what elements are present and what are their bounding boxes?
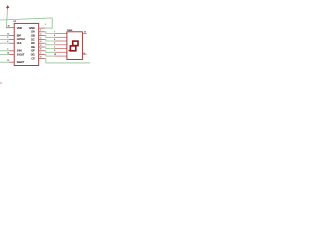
pin EN stub	[9, 35, 14, 37]
pin f stub	[55, 51, 67, 53]
wire B-EXT	[0, 61, 9, 63]
wire e	[45, 47, 55, 49]
wire: horizontal rail y=18.4	[0, 18, 52, 20]
digit 8 top loop	[73, 41, 78, 46]
pin g stub	[55, 55, 67, 57]
wire: rail corner down to GND pin	[45, 18, 53, 28]
pin OE stub	[39, 46, 45, 48]
clipped part fragment at left edge	[0, 83, 2, 84]
IC left pin labels	[17, 26, 25, 64]
wire d	[45, 43, 55, 45]
display pin numbers	[54, 31, 56, 56]
wire EN	[0, 35, 9, 37]
wire: power vertical to VDD pin	[6, 9, 7, 28]
digit 8 figure	[70, 41, 78, 51]
wire B-OUT	[0, 54, 9, 56]
right pins: stubs rows 2-9	[39, 32, 45, 59]
wire co	[45, 58, 90, 63]
pin number 16	[8, 26, 10, 28]
IC right pin labels	[29, 26, 35, 60]
pin GND stub	[39, 27, 45, 29]
wire g	[45, 55, 55, 57]
pin VDD stub	[6, 27, 14, 29]
pin OF stub	[39, 50, 45, 52]
pin COM2 stub	[82, 53, 86, 55]
digit decimal point	[69, 50, 70, 51]
wire f	[45, 51, 55, 53]
pin LATCH stub	[9, 38, 14, 40]
pin COM1 stub	[82, 32, 86, 34]
wire c	[45, 39, 55, 41]
display pin stubs (long pale)	[55, 34, 67, 57]
wire a	[45, 32, 55, 34]
label U1	[14, 21, 18, 23]
left pins: stubs and wires	[9, 36, 14, 63]
7-segment display box	[67, 32, 83, 60]
pin OD stub	[39, 42, 45, 44]
svg-text:7SEG: 7SEG	[67, 30, 73, 32]
pin number 1 (GND)	[45, 24, 46, 26]
pin a stub	[55, 33, 67, 35]
pin CO stub	[39, 57, 45, 59]
pin b stub	[55, 36, 67, 38]
power symbol 5V	[6, 5, 9, 9]
label 7SEG	[67, 30, 73, 32]
pin OB stub	[39, 35, 45, 37]
pin e stub	[55, 48, 67, 50]
wires: IC outputs to display pins (jog down)	[45, 32, 90, 63]
pin OC stub	[39, 38, 45, 40]
pin OG stub	[39, 54, 45, 56]
wire LATCH	[0, 38, 9, 40]
IC U1 box	[14, 23, 39, 65]
wire CLK	[0, 42, 9, 44]
pin B-IN stub	[9, 50, 14, 52]
wire B-IN	[0, 50, 9, 52]
left pin numbers	[7, 33, 9, 62]
pin c stub	[55, 40, 67, 42]
digit 8 bottom loop	[70, 46, 75, 51]
pin B-EXT stub	[9, 61, 14, 63]
wire b	[45, 36, 55, 38]
right pin numbers	[40, 30, 41, 59]
pin d stub	[55, 44, 67, 46]
pin OA stub	[39, 31, 45, 33]
pin B-OUT stub	[9, 54, 14, 56]
pin CLK stub	[9, 42, 14, 44]
